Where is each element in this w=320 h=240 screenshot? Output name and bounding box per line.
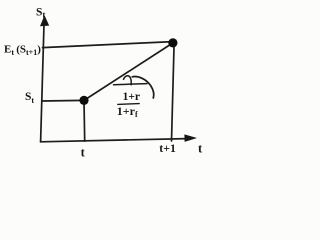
wire E_t(S_t+1) horizontal level line [43,42,173,48]
x-axis [41,139,187,142]
svg-text:Et (St+1): Et (St+1) [4,44,41,57]
x-axis arrowhead [184,134,197,142]
angle large arc (curved arrow) [132,76,154,98]
svg-text:1+r: 1+r [123,91,140,103]
angle small arc (arrow hook) [124,76,132,85]
node point (t, S_t) [79,96,88,105]
fraction bar [118,103,139,106]
svg-text:t+1: t+1 [159,141,176,155]
vertical line at t [83,100,86,141]
expectation diagonal line [84,43,173,101]
svg-text:t: t [198,141,203,155]
wire S_t horizontal level line [42,99,84,102]
svg-text:St: St [25,91,34,105]
svg-text:St: St [36,6,45,19]
y-axis arrowhead [40,15,49,26]
node point (t+1, E_t(S_t+1)) [168,38,177,47]
svg-text:t: t [81,145,86,159]
angle base line [114,84,148,85]
vertical line at t+1 [172,47,175,141]
y-axis [41,24,44,142]
svg-text:1+rf: 1+rf [117,104,138,119]
